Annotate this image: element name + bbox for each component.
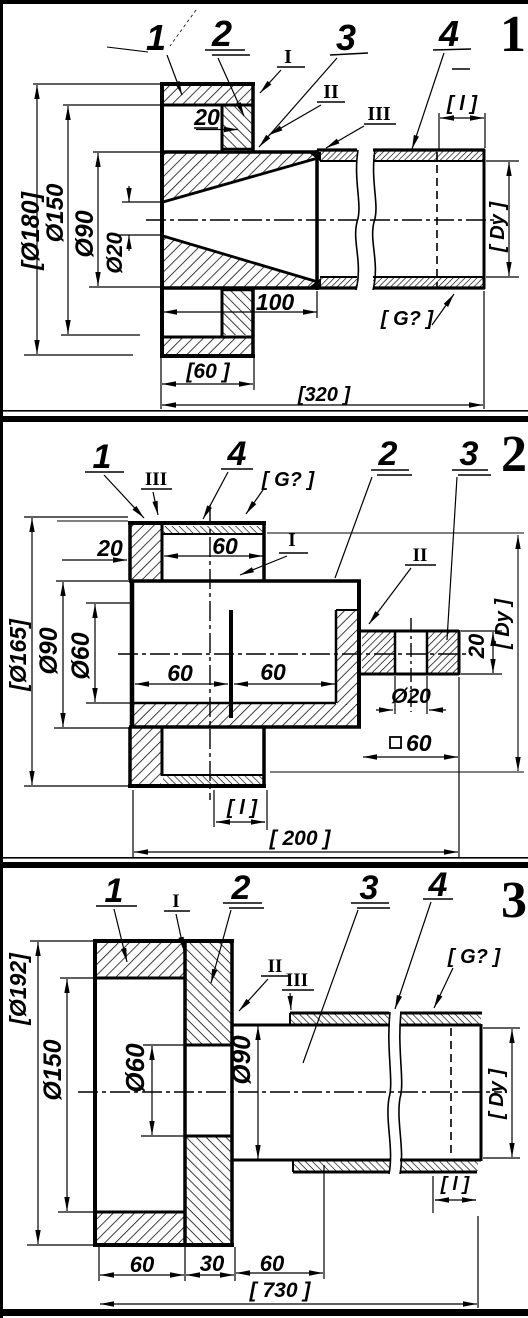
stub part 3 outline (359, 630, 459, 675)
svg-text:60: 60 (260, 659, 286, 685)
cone part 3 hatch bottom wedge (163, 237, 317, 287)
dimension 60 flange (98, 1247, 100, 1281)
svg-text:II: II (413, 545, 428, 566)
vertical center axis stub hole (410, 618, 412, 712)
dimension [Dy] right (267, 533, 524, 772)
leader label 4 (203, 472, 228, 519)
svg-text:30: 30 (200, 1251, 225, 1276)
leader label 2 (211, 910, 231, 983)
svg-text:[60 ]: [60 ] (185, 360, 230, 383)
svg-text:[Ø180]: [Ø180] (17, 190, 45, 270)
dimension Ø180 (24, 84, 160, 355)
separator bar panel2/panel3 (0, 862, 528, 868)
leader label 3 (447, 477, 457, 640)
leader weld II (239, 979, 268, 1011)
leader label 3 (259, 58, 337, 147)
column part 2 outline (185, 941, 232, 1245)
ring part 2 bottom hatch (223, 291, 252, 335)
top pipe plate part 4 hatch (163, 526, 263, 534)
cone part 3 outline (162, 150, 318, 290)
svg-text:4: 4 (438, 13, 459, 54)
dimension 30 column (234, 1247, 236, 1281)
separator line panel2/panel3 thin (0, 857, 528, 859)
dimension [60] (253, 358, 255, 390)
sleeve part 4 top-right band hatch (401, 1014, 481, 1024)
leader weld I (260, 70, 281, 93)
pipe part 3 outline (232, 1024, 481, 1161)
bottom neck right edge (262, 727, 266, 788)
svg-text:2: 2 (501, 426, 527, 483)
bottom neck left edge (128, 727, 132, 787)
sleeve part 4 bottom-right band hatch (401, 1161, 478, 1171)
svg-text:Ø90: Ø90 (226, 1035, 256, 1085)
stub part 3 left hatch (362, 632, 395, 674)
separator bar panel1/panel2 (0, 416, 528, 422)
flange part 1 hatch bottom band (163, 338, 252, 355)
dimension Ø20 (119, 186, 160, 251)
svg-text:[ G? ]: [ G? ] (261, 469, 316, 491)
svg-text:[Ø165]: [Ø165] (5, 618, 31, 692)
svg-text:3: 3 (501, 872, 527, 929)
svg-text:1: 1 (93, 438, 112, 476)
column part 2 upper hatch (186, 943, 231, 1044)
leader label 1 (104, 475, 144, 518)
dimension square 60 (390, 737, 401, 748)
dimension [l] pipe (438, 113, 440, 150)
dimension [Dy] (483, 1028, 520, 1158)
pipe part 4 bottom wall hatch (320, 278, 357, 288)
svg-text:3: 3 (360, 869, 379, 907)
svg-text:III: III (145, 469, 167, 490)
dimension Ø90 (89, 152, 160, 287)
dimension Ø60 left (86, 603, 134, 703)
weld bead top at cone-pipe joint (308, 152, 321, 162)
dimension [Ø165] (24, 517, 128, 786)
pipe break wavy lines (356, 150, 359, 290)
flange part 1 outline (160, 82, 255, 358)
pipe part 4 top wall hatch (320, 151, 357, 161)
flange part 1 top band hatch (96, 943, 184, 977)
leader label 2 (335, 477, 372, 578)
svg-text:[ 200 ]: [ 200 ] (269, 827, 332, 850)
svg-text:60: 60 (130, 1252, 155, 1277)
dimension 60 pipe (323, 1165, 325, 1279)
svg-text:Ø60: Ø60 (120, 1043, 150, 1093)
page frame left (0, 0, 3, 1318)
ring part 2 top hatch (223, 106, 252, 149)
center axis line (146, 219, 495, 221)
svg-text:20: 20 (193, 104, 220, 130)
leader label 4 (412, 53, 444, 149)
dimension Ø20 stub hole (376, 676, 446, 714)
svg-text:[ G? ]: [ G? ] (447, 946, 502, 968)
svg-text:[320 ]: [320 ] (297, 384, 352, 406)
svg-text:Ø150: Ø150 (39, 1039, 67, 1100)
page frame bottom (0, 1309, 528, 1316)
leader weld III (326, 126, 364, 148)
dimension [200] (133, 677, 459, 858)
svg-text:1: 1 (146, 17, 166, 58)
svg-text:2: 2 (378, 435, 398, 473)
sleeve part 4 top-left band hatch (291, 1014, 389, 1024)
svg-text:60: 60 (260, 1251, 285, 1276)
dimension [Ø192] (27, 941, 93, 1245)
svg-text:[ 730 ]: [ 730 ] (249, 1279, 312, 1302)
leader weld II (369, 568, 411, 624)
svg-text:Ø90: Ø90 (71, 210, 99, 257)
svg-text:I: I (288, 530, 295, 551)
dimension 100 (163, 311, 317, 313)
center axis line (78, 1091, 502, 1093)
svg-text:I: I (284, 46, 292, 68)
leader weld I (176, 914, 184, 951)
dimension [730] (477, 1216, 479, 1308)
svg-text:20: 20 (464, 633, 489, 659)
dimension [l] bottom neck (214, 790, 267, 830)
leader label 3 (303, 910, 358, 1063)
svg-text:Ø60: Ø60 (67, 632, 95, 679)
sleeve part 4 outline (290, 1013, 482, 1172)
svg-text:2: 2 (211, 13, 232, 54)
sleeve part 4 bottom-left band hatch (294, 1161, 389, 1171)
weld bead bottom at cone-pipe joint (308, 278, 321, 288)
svg-text:60: 60 (406, 730, 432, 756)
dimension Ø150 (58, 978, 95, 1212)
extension line plate top left (57, 520, 128, 522)
body part 2 bottom band hatch (134, 704, 359, 726)
pipe break wavy lines (388, 1012, 391, 1174)
page frame top (0, 0, 528, 4)
dimension [l] sleeve (433, 1176, 476, 1213)
svg-text:Ø20: Ø20 (102, 231, 127, 273)
pipe part 4 outline (317, 149, 485, 289)
svg-text:[ Dy ]: [ Dy ] (486, 1068, 508, 1120)
svg-text:Ø150: Ø150 (42, 183, 69, 242)
svg-text:100: 100 (256, 289, 295, 315)
dimension [Dy] (486, 160, 519, 162)
separator line panel1/panel2 thin (0, 410, 528, 412)
horizontal center axis (118, 653, 468, 655)
thread boundary dashed line (450, 1028, 452, 1158)
top neck wall part 1 hatch (131, 525, 161, 580)
dimension Ø90 left (54, 581, 129, 728)
flange part 1 hatch top band (163, 85, 252, 104)
bottom pipe plate part 4 hatch (163, 776, 263, 784)
leader label 1 (167, 55, 182, 95)
stub part 3 right hatch (428, 632, 458, 674)
leader weld III (153, 492, 158, 515)
svg-text:20: 20 (96, 535, 123, 561)
svg-text:1: 1 (105, 872, 124, 910)
dimension Ø90 (257, 1026, 259, 1159)
leader weld III (290, 993, 291, 1010)
leader weld II (269, 105, 321, 135)
svg-text:[ l ]: [ l ] (440, 1174, 470, 1195)
leader weld I (240, 556, 287, 575)
body part 2 right wall hatch (337, 611, 359, 705)
svg-text:2: 2 (231, 869, 251, 907)
leader label 1 (114, 909, 127, 962)
svg-text:Ø90: Ø90 (35, 627, 63, 674)
svg-text:[Ø192]: [Ø192] (5, 952, 31, 1026)
svg-text:Ø20: Ø20 (391, 685, 431, 708)
thread boundary dashed line (436, 152, 438, 288)
vertical center axis neck (209, 505, 211, 800)
svg-text:III: III (286, 970, 308, 991)
flange part 1 bottom band hatch (96, 1213, 184, 1244)
svg-text:II: II (323, 81, 339, 103)
bottom neck inner left edge (161, 727, 164, 776)
dimension Ø60 (141, 1045, 185, 1136)
dimension [320] (160, 358, 162, 409)
cone part 3 hatch top wedge (163, 153, 317, 201)
internal baffle (229, 610, 233, 718)
top neck wall part 1 left edge (128, 521, 132, 580)
svg-text:[ G? ]: [ G? ] (380, 308, 435, 330)
body part 2 outline (129, 581, 361, 727)
svg-text:[ l ]: [ l ] (226, 797, 258, 819)
bottom pipe plate outline (162, 774, 264, 776)
column part 2 lower hatch (186, 1137, 231, 1243)
svg-text:[ Dy ]: [ Dy ] (492, 598, 514, 650)
svg-text:[ Dy ]: [ Dy ] (487, 201, 509, 253)
ring part 2 outline (222, 105, 253, 336)
svg-text:3: 3 (460, 435, 479, 473)
leader label 4 (395, 902, 431, 1009)
svg-text:60: 60 (212, 533, 238, 559)
dimension Ø150 (61, 105, 160, 335)
svg-text:60: 60 (167, 660, 193, 686)
svg-text:[ l ]: [ l ] (446, 93, 478, 115)
svg-text:4: 4 (227, 435, 247, 473)
svg-text:II: II (268, 956, 283, 977)
svg-text:I: I (172, 891, 179, 912)
dimension 20 stub height (461, 631, 502, 674)
svg-text:1: 1 (500, 6, 526, 63)
flange part 1 outline (93, 939, 234, 1247)
top pipe plate part 4 outline (128, 521, 266, 580)
bottom neck wall part 1 hatch (131, 728, 161, 785)
svg-text:3: 3 (336, 17, 356, 58)
svg-text:III: III (367, 103, 391, 125)
leader label 2 (218, 58, 244, 116)
